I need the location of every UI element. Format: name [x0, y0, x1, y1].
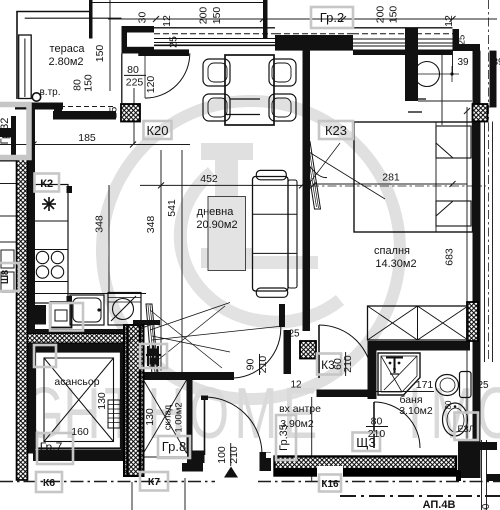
box K23	[319, 121, 353, 139]
wardrobe bedroom south	[368, 306, 469, 340]
hall corner piece	[279, 304, 285, 327]
svg-text:12: 12	[161, 15, 173, 27]
party wall stub top	[263, 0, 268, 38]
box K3 kitchen	[34, 345, 56, 367]
hatched column at K20	[121, 104, 140, 122]
svg-text:склад: склад	[163, 404, 174, 430]
svg-text:150: 150	[388, 6, 400, 24]
window pier top centre	[275, 35, 353, 51]
fraction line 60/210	[345, 352, 347, 376]
box electric glyph	[140, 344, 167, 368]
kitchen south wall black-hatch-black	[28, 329, 132, 334]
hatched column right wall upper	[473, 104, 488, 122]
living/bedroom wall	[303, 47, 311, 331]
entrance jamb right	[260, 452, 272, 471]
box kitchen lower	[50, 303, 83, 331]
chair bottom-right	[269, 94, 296, 121]
svg-text:30: 30	[137, 12, 149, 24]
box K3 bath door	[317, 354, 341, 375]
terrace outer wall top	[16, 11, 91, 13]
vertical dim line 348 kitchen	[108, 185, 110, 293]
terrace lintel dashed	[60, 106, 116, 108]
box K2	[35, 174, 60, 192]
kitchen counter column	[31, 185, 68, 304]
elevator shaft walls	[28, 352, 36, 454]
svg-text:К20: К20	[146, 123, 168, 138]
svg-text:225: 225	[126, 77, 144, 89]
pillow 2	[436, 201, 471, 226]
living south wall	[140, 372, 234, 380]
dim ticks top	[153, 16, 456, 22]
fraction line 90/210	[259, 354, 261, 375]
right neighbour glazing	[484, 122, 486, 363]
vertical dim line hall	[311, 397, 313, 481]
svg-text:К16: К16	[321, 479, 339, 490]
svg-text:683: 683	[444, 248, 456, 266]
svg-text:281: 281	[382, 172, 400, 184]
box Gr.2	[311, 7, 353, 28]
dim line 452	[140, 184, 302, 186]
terrace south wall	[15, 103, 63, 110]
terrace parapet column	[19, 35, 32, 99]
bath north wall	[368, 341, 471, 351]
box Shch3	[353, 433, 381, 452]
svg-text:100: 100	[481, 503, 492, 510]
dining table	[225, 55, 274, 125]
elevator door comb	[108, 400, 120, 428]
sofa back strip	[288, 180, 297, 288]
hatched column hall	[300, 341, 316, 359]
svg-text:К2: К2	[40, 178, 53, 190]
svg-text:80: 80	[71, 79, 83, 91]
column U top of living room	[122, 26, 155, 33]
centreline bed dashdot	[310, 185, 486, 187]
svg-text:К6: К6	[43, 477, 55, 489]
svg-text:348: 348	[94, 215, 106, 233]
bed fold lines	[435, 122, 437, 232]
centreline right window dashdot	[488, 0, 490, 362]
window dashes under Gr.2 box	[275, 33, 353, 35]
svg-text:12: 12	[443, 15, 455, 27]
svg-text:25: 25	[288, 329, 300, 340]
box EZL	[455, 413, 479, 441]
svg-text:25: 25	[168, 36, 180, 48]
svg-text:210: 210	[257, 356, 269, 374]
svg-text:452: 452	[200, 173, 218, 185]
chair top-right	[269, 59, 296, 86]
svg-text:200: 200	[375, 6, 387, 24]
left edge wall bits	[0, 128, 16, 137]
living window band	[154, 27, 275, 29]
hatched column right wall lower	[467, 302, 478, 341]
south wall column right	[458, 441, 478, 478]
svg-text:Ш8: Ш8	[0, 270, 10, 284]
kitchen west wall	[28, 109, 36, 352]
top dimension chain line	[108, 18, 497, 20]
svg-text:90: 90	[245, 359, 257, 371]
window pier top right	[453, 29, 460, 51]
svg-text:80: 80	[371, 416, 383, 428]
chair bottom-left	[203, 94, 230, 121]
svg-text:185: 185	[78, 132, 96, 144]
kitchen fan strip	[128, 303, 283, 375]
svg-text:в.тр.: в.тр.	[39, 87, 60, 98]
bedroom door leaf	[318, 325, 320, 378]
svg-text:210: 210	[228, 446, 240, 464]
box K7	[140, 472, 168, 491]
terrace parapet inner line	[25, 17, 122, 19]
watermark word GHT	[24, 374, 500, 454]
svg-text:К3: К3	[321, 358, 335, 372]
svg-text:150: 150	[94, 45, 106, 63]
box Gr.7	[37, 433, 73, 464]
svg-text:Гр.35: Гр.35	[278, 424, 290, 451]
neighbour room lines left	[0, 183, 17, 185]
svg-text:14.30м2: 14.30м2	[375, 258, 416, 270]
living west wall edge line	[121, 54, 123, 105]
svg-text:Гр.7: Гр.7	[40, 440, 63, 454]
svg-text:100: 100	[216, 446, 228, 464]
svg-text:АП.4В: АП.4В	[423, 499, 456, 510]
rug / coffee table	[208, 197, 246, 271]
terrace outer wall left	[16, 11, 18, 99]
svg-text:1.00м2: 1.00м2	[174, 402, 185, 432]
shower head symbol	[386, 357, 403, 359]
closet niche boundary line	[441, 51, 443, 125]
svg-text:25: 25	[107, 107, 119, 119]
svg-text:171: 171	[416, 379, 434, 391]
stove burners	[36, 251, 48, 263]
right wall line under pier	[481, 106, 497, 108]
K23 folding leaf bedroom	[304, 142, 385, 210]
svg-text:Гр.32: Гр.32	[0, 118, 11, 145]
svg-text:200: 200	[198, 7, 210, 25]
entry circle	[32, 93, 40, 101]
kitchen bottom row	[33, 293, 146, 326]
svg-text:ЕЗЛ: ЕЗЛ	[457, 424, 474, 434]
sink	[70, 295, 104, 325]
box Gr.32	[0, 105, 29, 158]
box K20	[144, 121, 172, 139]
hatched wall: south corridor band	[275, 457, 462, 482]
svg-text:130: 130	[144, 408, 156, 426]
storage X	[144, 380, 187, 453]
svg-text:дневна: дневна	[197, 206, 235, 218]
neighbour label block	[487, 474, 500, 481]
svg-text:спалня: спалня	[374, 245, 410, 257]
living-hall door	[234, 319, 281, 378]
corridor line	[0, 481, 215, 483]
neighbour fixtures left	[1, 250, 14, 268]
elevator cabin	[35, 352, 121, 449]
right edge vertical lines bottom	[481, 440, 483, 510]
svg-text:12: 12	[290, 380, 302, 391]
bath door leaf	[373, 402, 375, 448]
svg-text:150: 150	[83, 74, 95, 92]
svg-text:асансьор: асансьор	[54, 376, 99, 388]
watermark monogram I	[201, 143, 253, 268]
boiler black box	[35, 305, 46, 325]
sofa armrest top	[256, 170, 286, 179]
hatched wall: kitchen south band	[28, 334, 132, 344]
box Gr.35	[276, 415, 296, 460]
svg-text:210: 210	[342, 355, 354, 373]
closet shelf line bedroom	[418, 100, 472, 102]
svg-text:тераса: тераса	[50, 43, 86, 55]
entrance door arc	[205, 397, 263, 455]
sofa armrest bottom	[256, 288, 287, 297]
chair top-left	[203, 59, 230, 86]
svg-text:M: M	[234, 374, 277, 454]
sofa cushion lines	[253, 213, 298, 215]
terrace door lintel bar	[138, 49, 189, 56]
bed	[354, 122, 473, 232]
svg-text:3.10м2: 3.10м2	[399, 405, 433, 417]
hatched wall: elevator/storage band	[124, 325, 144, 476]
fraction lines horizontal	[124, 74, 146, 76]
bedroom closet lamp circle	[415, 62, 440, 87]
entrance jamb notch	[266, 453, 271, 459]
svg-text:80: 80	[444, 400, 453, 409]
vertical dim line terrace	[109, 0, 111, 91]
terrace door arc	[145, 53, 190, 98]
corridor stub lines	[131, 482, 133, 510]
storage east wall	[187, 380, 193, 454]
svg-text:O: O	[189, 374, 229, 454]
entrance jamb left	[187, 451, 205, 464]
sofa body	[253, 177, 289, 292]
vertical dim line 541 living	[181, 150, 183, 375]
elevator dim line	[135, 456, 187, 458]
svg-text:Гр.8: Гр.8	[162, 439, 186, 454]
svg-text:Щ3: Щ3	[356, 435, 375, 450]
dim line 281	[313, 183, 467, 185]
framed appliance	[51, 302, 72, 328]
svg-text:К7: К7	[148, 476, 160, 488]
svg-text:80: 80	[127, 64, 139, 76]
svg-text:2.80м2: 2.80м2	[48, 56, 83, 68]
toilet	[436, 372, 476, 398]
neighbour wall return top right	[490, 51, 497, 107]
right exterior wall	[473, 51, 481, 478]
svg-text:вх антре: вх антре	[279, 403, 321, 415]
box Gr.8	[158, 436, 190, 458]
hall west wall	[284, 330, 292, 374]
vertical dim line 348 living	[160, 150, 162, 371]
roof edge line top	[91, 2, 266, 4]
svg-text:541: 541	[166, 199, 178, 217]
dim line 39 top right	[452, 51, 454, 74]
dim line 185	[0, 144, 190, 146]
watermark monogram bowl	[180, 172, 340, 322]
dim line bath 171	[377, 391, 435, 393]
washing machine	[108, 293, 141, 326]
svg-text:160: 160	[71, 426, 89, 438]
svg-text:348: 348	[145, 216, 157, 234]
box K6	[36, 472, 62, 492]
bath west wall	[368, 343, 377, 399]
svg-text:20.90м2: 20.90м2	[196, 219, 237, 231]
entrance door leaf	[204, 397, 206, 455]
svg-text:39: 39	[457, 57, 469, 68]
electric panel glyph	[146, 344, 161, 368]
svg-text:130: 130	[96, 392, 108, 410]
pillow 1	[436, 126, 471, 158]
watermark ring	[102, 101, 400, 399]
bedroom closet stub wall	[405, 28, 418, 101]
svg-text:25: 25	[457, 35, 468, 46]
bath door arc	[374, 402, 420, 448]
hall south-east wall bar	[317, 390, 374, 398]
svg-text:150: 150	[211, 7, 223, 25]
fridge asterisk	[42, 197, 56, 211]
washbasin	[443, 403, 468, 436]
svg-text:К23: К23	[325, 123, 347, 138]
svg-text:120: 120	[145, 76, 157, 94]
fraction line 100/210 entrance	[230, 443, 232, 466]
hatched wall: kitchen west band	[17, 158, 28, 480]
bedroom window band	[353, 27, 453, 29]
box K16	[319, 475, 341, 492]
shower cabin	[378, 353, 420, 395]
counter corner squares	[67, 186, 73, 193]
svg-text:25: 25	[477, 380, 489, 391]
vertical dim line 80/225	[133, 88, 135, 145]
svg-text:39: 39	[492, 57, 500, 68]
terrace side wall stub	[89, 0, 93, 39]
corridor dashed line bottom right	[340, 495, 500, 497]
svg-text:Гр.2: Гр.2	[320, 10, 344, 25]
entrance jamb top	[201, 396, 208, 401]
vertical dim line 683	[466, 107, 468, 455]
small bar left of fan strip	[133, 320, 160, 325]
bedroom door arc	[319, 325, 372, 378]
entrance direction triangle	[224, 467, 238, 478]
box Sh8	[0, 263, 19, 291]
